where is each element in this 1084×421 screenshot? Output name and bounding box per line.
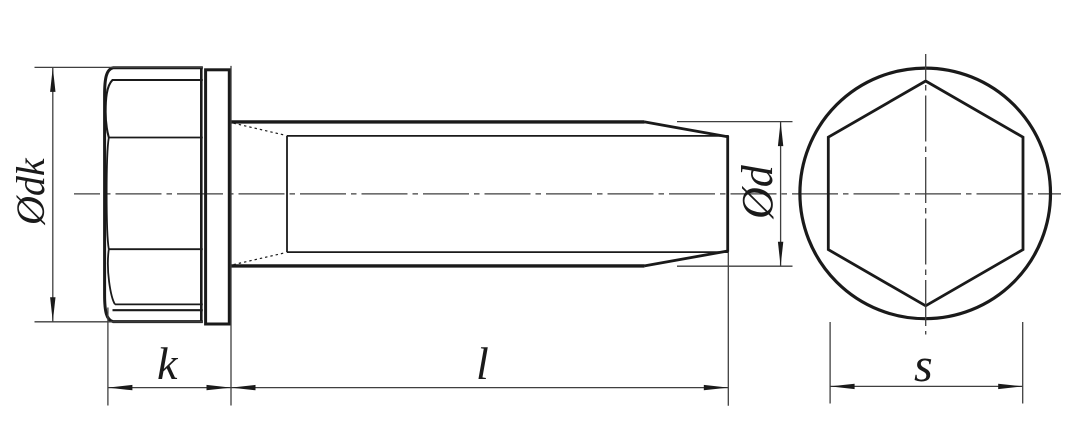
dim Odk extension bottom — [35, 321, 204, 323]
dim Odk arrows — [50, 67, 55, 92]
end face — [726, 136, 729, 252]
head top chamfer line — [106, 80, 203, 138]
shank crest bottom — [231, 264, 645, 267]
centerline horizontal — [74, 193, 1061, 195]
head right edge — [200, 68, 203, 322]
svg-text:Ød: Ød — [733, 164, 782, 220]
middle facet arc — [107, 138, 109, 250]
facet line top — [109, 137, 203, 139]
thread root bottom — [287, 251, 729, 253]
head bottom chamfer line B — [113, 309, 203, 311]
head bottom chamfer line A — [115, 303, 203, 305]
svg-text:l: l — [476, 338, 489, 389]
svg-text:k: k — [157, 338, 179, 389]
hex head silhouette — [105, 68, 203, 322]
dim k line — [108, 387, 231, 389]
shank crest top — [231, 120, 645, 123]
end view circle — [800, 68, 1051, 319]
dim s arrows — [830, 384, 855, 389]
dim k arrows — [108, 385, 132, 390]
dim k / l shared ext — [230, 66, 232, 406]
dim Od line — [780, 122, 782, 267]
washer flange rectangle — [206, 70, 230, 324]
thread runout — [286, 136, 288, 252]
bottom facet arc — [108, 249, 115, 304]
end chamfer bottom — [645, 251, 728, 266]
dim k ext left — [107, 308, 109, 406]
facet line bottom — [109, 248, 203, 250]
end chamfer top — [645, 122, 728, 137]
dim s ext left — [829, 322, 831, 404]
dim Odk line — [52, 67, 54, 321]
vertical centerline — [925, 54, 927, 335]
thread root top — [287, 135, 729, 137]
dim Od ext top — [677, 121, 793, 123]
dim s line — [830, 385, 1023, 387]
svg-text:Ødk: Ødk — [8, 157, 53, 226]
dim l ext right — [727, 253, 729, 406]
dim l arrows — [231, 385, 256, 390]
dim Odk extension top — [35, 66, 204, 68]
under-head chamfer dotted top — [234, 123, 287, 135]
end view hexagon — [828, 81, 1023, 306]
dim Od ext bottom — [677, 265, 793, 267]
under-head chamfer dotted bottom — [234, 253, 287, 265]
dim l line — [231, 387, 728, 389]
dim Od arrows — [778, 122, 783, 147]
dim s ext right — [1022, 322, 1024, 404]
svg-text:s: s — [914, 339, 933, 392]
